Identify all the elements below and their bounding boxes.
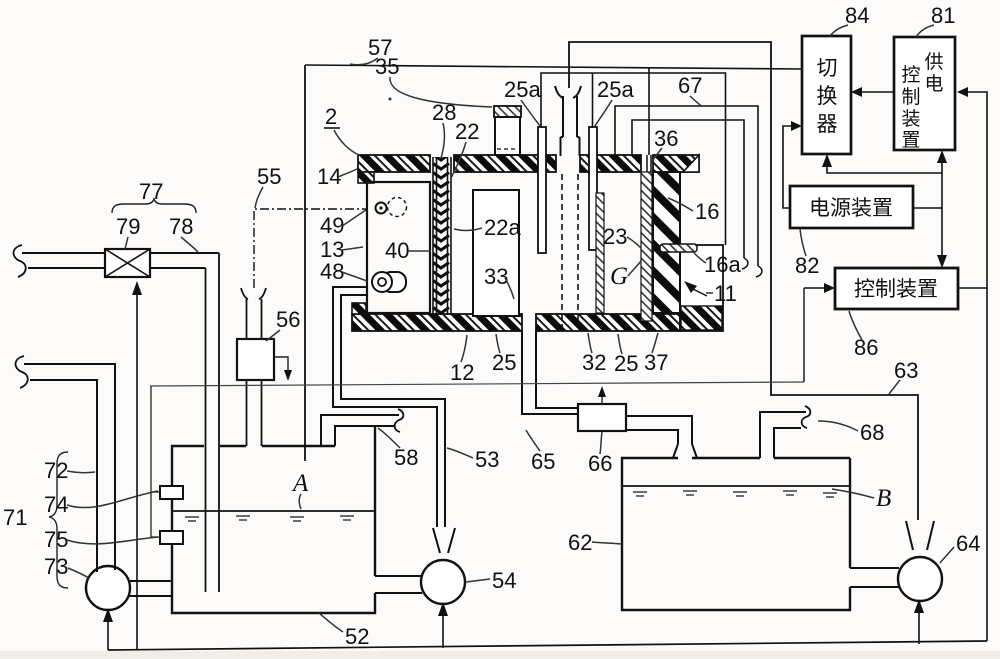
vent pipe 68 [760, 412, 806, 458]
wire 25a bus 67 [541, 73, 726, 245]
tank A liquid level A [173, 510, 374, 512]
svg-text:63: 63 [894, 358, 918, 383]
wire to 25a right [592, 73, 594, 127]
leader 13 [342, 247, 363, 250]
wire 81-86 bus [941, 153, 943, 265]
svg-text:控: 控 [901, 64, 920, 86]
svg-text:82: 82 [795, 253, 819, 278]
text in box 84 [817, 57, 838, 136]
leader 32 [588, 333, 592, 353]
leader 53 [447, 448, 473, 458]
leader 49 [342, 210, 366, 226]
cell top wall (lid) 14 [358, 155, 699, 172]
svg-text:A: A [291, 470, 309, 497]
wire 82 to 84 [783, 126, 798, 208]
svg-text:换: 换 [817, 85, 838, 108]
svg-text:79: 79 [116, 214, 140, 239]
svg-text:73: 73 [44, 554, 68, 579]
leader 84 [830, 25, 848, 36]
wire pump 73 actuator [107, 612, 109, 650]
svg-text:75: 75 [44, 527, 68, 552]
leader 78 [181, 237, 198, 252]
water marks tank B [633, 491, 837, 497]
inner box 22a/33 [473, 190, 519, 316]
switcher box 84 [802, 36, 851, 154]
bottom wall left tab [352, 303, 366, 314]
power supply controller box 81 [894, 37, 955, 150]
svg-text:16: 16 [695, 199, 719, 224]
leader 11 [706, 292, 713, 294]
svg-text:控制装置: 控制装置 [854, 278, 938, 301]
svg-text:23: 23 [603, 224, 627, 249]
pump 54 suction from tank A [375, 575, 422, 577]
chamber 13 outlet pipe [333, 287, 445, 527]
arrow 11 [684, 281, 697, 293]
svg-text:25a: 25a [504, 77, 541, 102]
electrode tube 25a right [589, 127, 597, 250]
right end block 37 [680, 245, 723, 331]
leader 33 [505, 278, 514, 299]
svg-text:25: 25 [492, 350, 516, 375]
leader 22 [451, 142, 466, 178]
dash-dot line 55 [254, 209, 366, 288]
svg-text:71: 71 [3, 505, 27, 530]
funnel of 56 [241, 288, 248, 299]
leader B [832, 489, 874, 498]
leader 82 [800, 229, 806, 256]
svg-text:64: 64 [956, 531, 980, 556]
leader 12 [461, 335, 467, 362]
leader 57 [350, 58, 378, 65]
leader 48 [342, 272, 367, 281]
leader 16 [668, 198, 693, 211]
leader 65 [526, 430, 540, 451]
pipe break 68 [802, 406, 811, 428]
leader 63 [889, 380, 900, 394]
level sensor 75 [160, 531, 183, 544]
svg-text:36: 36 [654, 126, 678, 151]
leader 56 [266, 330, 280, 341]
pump 73 suction from tank A [129, 580, 172, 582]
svg-text:16a: 16a [704, 252, 741, 277]
wire 86 to 81 and bottom bus [958, 92, 987, 288]
leader 52 [319, 613, 343, 632]
valve 79 [105, 249, 150, 277]
tank B liquid level B [623, 485, 849, 487]
leader G [628, 261, 641, 276]
sensor circle 49 [376, 203, 387, 214]
leader 73 [68, 568, 89, 578]
wire 82 to bus [913, 207, 942, 209]
leader 66 [600, 432, 602, 454]
leader 25a R [595, 100, 612, 126]
signal line to controller [150, 382, 804, 386]
svg-text:11: 11 [714, 281, 737, 306]
svg-text:22a: 22a [484, 215, 521, 240]
leader 79 [125, 237, 128, 249]
scan smudge bottom [0, 651, 1000, 659]
electrode tube 25a left [538, 127, 546, 253]
wire 66 to control line [601, 392, 603, 404]
tube 35 [494, 106, 521, 117]
wire signal into 86 [803, 288, 805, 382]
leader 16a [694, 253, 706, 263]
svg-text:25: 25 [614, 351, 638, 376]
leader 25a L [521, 100, 540, 126]
leader 2 [334, 130, 359, 155]
pump 73 [86, 566, 130, 610]
pipe break upper-left of 72 [16, 356, 28, 388]
brace 77 [112, 199, 196, 213]
svg-text:55: 55 [257, 164, 281, 189]
leader 68 [818, 421, 858, 431]
svg-text:切: 切 [817, 57, 838, 80]
svg-text:53: 53 [475, 447, 499, 472]
leader 64 [940, 547, 954, 563]
wire branch to 84 bottom [827, 158, 942, 173]
leader 54 [466, 579, 490, 582]
brace 71 [49, 452, 68, 588]
leader 62 [592, 542, 621, 544]
pump 64 [898, 557, 942, 601]
bottom control bus [108, 641, 987, 650]
wire pump 54 actuator [442, 606, 444, 648]
svg-text:2: 2 [325, 104, 337, 129]
tank A outline 52 [172, 426, 375, 613]
leader 86 [849, 311, 862, 340]
pipe 72 [24, 364, 115, 572]
leader 35 [390, 77, 492, 107]
leader 58 [378, 428, 400, 448]
leader 25 R [618, 334, 622, 354]
leader 37 [652, 333, 658, 353]
leader 14 [338, 169, 357, 177]
letter labels A B G [291, 263, 891, 512]
pipe break at valve inlet [14, 245, 26, 277]
leader 55 [255, 187, 263, 208]
leader 25 L [496, 334, 500, 353]
svg-text:33: 33 [484, 264, 508, 289]
underline of 2 [324, 127, 340, 129]
ink dot [389, 98, 392, 101]
top wall right end white notch [683, 155, 699, 172]
svg-text:54: 54 [492, 568, 516, 593]
sensor signal wire [151, 386, 160, 492]
dip tube from valve 78 [205, 268, 207, 592]
svg-text:52: 52 [345, 624, 369, 649]
flow box 66 [578, 404, 626, 431]
svg-text:49: 49 [320, 213, 344, 238]
svg-text:12: 12 [450, 360, 474, 385]
gas sensor box 56 [237, 339, 274, 380]
supply pipe to valve 79 [22, 252, 105, 254]
svg-text:供: 供 [924, 51, 943, 73]
port cylinder 48 [382, 272, 406, 292]
leader 74 [67, 491, 158, 508]
water marks tank A [185, 516, 354, 521]
svg-text:86: 86 [854, 335, 878, 360]
wire rect D [632, 120, 744, 258]
pipe valve to tank A [150, 252, 219, 254]
leader 75 [67, 537, 158, 544]
pump 54 [421, 560, 465, 604]
svg-text:72: 72 [44, 458, 68, 483]
text in box 81 [901, 51, 943, 151]
chamber 13 [367, 182, 430, 313]
svg-text:67: 67 [678, 73, 702, 98]
svg-text:电源装置: 电源装置 [809, 197, 893, 220]
svg-text:40: 40 [385, 238, 409, 263]
leader 36 [651, 148, 662, 163]
svg-text:制: 制 [901, 86, 920, 108]
svg-text:电: 电 [924, 73, 943, 95]
svg-text:48: 48 [320, 259, 344, 284]
tank B outline 62 [622, 458, 850, 610]
wire to rod 36 [648, 67, 650, 155]
wall 16 [653, 172, 680, 313]
svg-text:66: 66 [588, 451, 612, 476]
svg-text:B: B [876, 485, 891, 512]
power source box 82 [790, 186, 913, 228]
svg-text:22: 22 [455, 119, 479, 144]
central feed tube funnel [555, 86, 563, 98]
leader 22a [454, 228, 482, 230]
svg-text:84: 84 [845, 3, 869, 28]
svg-text:77: 77 [139, 179, 163, 204]
svg-text:置: 置 [901, 130, 920, 151]
wire 56 to control line [274, 357, 288, 372]
svg-text:G: G [610, 263, 628, 290]
svg-text:78: 78 [169, 214, 193, 239]
rod 36 [646, 155, 648, 172]
valve control line [136, 286, 138, 650]
svg-text:器: 器 [817, 113, 838, 136]
electrode plate 23 [641, 172, 652, 321]
central feed tube [561, 96, 580, 156]
leader 40 [408, 250, 431, 252]
svg-text:35: 35 [375, 54, 399, 79]
electrode wall 28/22 chevron [433, 157, 451, 315]
svg-text:37: 37 [644, 350, 668, 375]
vent pipe 58 [321, 415, 399, 446]
level sensor 74 [160, 486, 183, 499]
wire pump 64 actuator [918, 603, 920, 644]
pump 64 funnel [906, 521, 913, 550]
top wall left tab [358, 172, 374, 183]
leader 28 [441, 123, 444, 158]
svg-text:58: 58 [394, 445, 418, 470]
svg-text:56: 56 [276, 307, 300, 332]
leader 23 [627, 237, 641, 248]
tube through 56 [246, 299, 248, 339]
pump 54 funnel [433, 528, 440, 553]
leader A [299, 494, 301, 509]
pump 64 suction from tank B [850, 567, 899, 569]
membrane 32 dashed [561, 174, 563, 327]
enclosure 57 top edge [305, 65, 802, 69]
leader 72 [67, 471, 95, 473]
pipe 66 to tank B [626, 416, 697, 458]
svg-text:装: 装 [901, 108, 920, 130]
svg-text:68: 68 [860, 420, 884, 445]
wire 81 to 84 [855, 91, 894, 93]
plate 25 right (thin hatched) [596, 193, 604, 313]
cell bottom wall 12 [352, 314, 680, 331]
svg-text:74: 74 [44, 492, 68, 517]
leader 67 [690, 96, 701, 106]
cell drain pipe 65 [522, 331, 578, 414]
svg-text:32: 32 [582, 350, 606, 375]
wire rect C [615, 106, 758, 266]
enclosure 57 left edge [304, 65, 306, 461]
terminal rod 16a [660, 244, 697, 252]
pipe break 58 [395, 409, 404, 432]
svg-text:65: 65 [531, 449, 555, 474]
leader 81 [916, 25, 934, 37]
svg-text:62: 62 [568, 530, 592, 555]
feed pipe 63 [569, 42, 918, 520]
controller box 86 [835, 268, 958, 309]
svg-text:81: 81 [931, 3, 955, 28]
svg-text:25a: 25a [597, 77, 634, 102]
